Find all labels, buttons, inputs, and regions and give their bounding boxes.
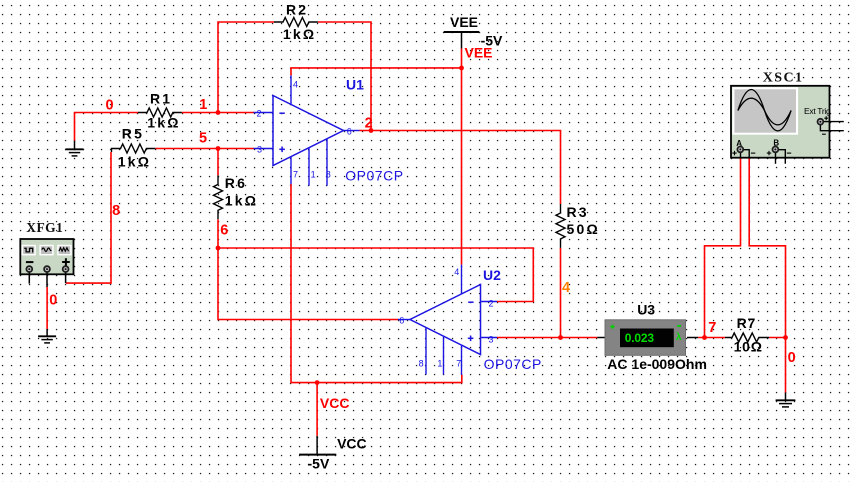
svg-text:5: 5 <box>199 131 207 147</box>
wire: VCC junction down to VCC symbol <box>316 383 318 436</box>
svg-text:1kΩ: 1kΩ <box>283 26 316 42</box>
svg-text:XSC1: XSC1 <box>763 70 804 85</box>
junction node2 R2 right <box>369 128 374 133</box>
ground (below XFG1) <box>38 329 56 343</box>
U3 right lead <box>687 337 698 339</box>
resistor R7 <box>725 333 769 342</box>
svg-text:R6: R6 <box>225 175 247 191</box>
wire: VEE rail down to U2 pin4 <box>461 49 463 265</box>
resistor R3 <box>556 204 565 248</box>
svg-text:VCC: VCC <box>320 395 350 411</box>
wire: R5 right to U1 non-inverting input (node 5) <box>156 148 255 150</box>
svg-text:2: 2 <box>489 299 494 309</box>
resistor R1 <box>138 108 182 117</box>
svg-text:R2: R2 <box>286 1 308 17</box>
wire: U1 output to R3 top <box>360 131 561 205</box>
svg-text:8: 8 <box>112 203 120 219</box>
wire: node 6 down to U2 output <box>218 248 398 320</box>
svg-text:7: 7 <box>708 320 716 336</box>
svg-text:6: 6 <box>347 126 352 136</box>
wire: R7 right to ground (node 0) <box>769 338 786 393</box>
svg-text:R3: R3 <box>567 204 589 220</box>
wire: node 8 from R5 left to XFG1 plus terminal <box>66 152 111 283</box>
svg-text:R7: R7 <box>737 315 757 331</box>
svg-text:B: B <box>773 138 779 147</box>
wire: VEE rail to U1 pin4 <box>291 68 462 76</box>
op-amp U2 (mirrored) <box>398 265 497 375</box>
svg-text:λ: λ <box>676 332 682 343</box>
U1 pin numbers <box>257 79 352 179</box>
wire: U2 non-inverting input to node 4 <box>497 337 561 339</box>
op-amp U1 <box>254 75 360 185</box>
wire: scope channel A plus to node 7 <box>705 158 741 338</box>
svg-text:1kΩ: 1kΩ <box>225 193 258 209</box>
svg-text:VEE: VEE <box>465 45 493 61</box>
svg-text:U2: U2 <box>483 267 501 283</box>
svg-text:3: 3 <box>489 335 494 345</box>
svg-text:7: 7 <box>456 359 461 369</box>
ammeter U3 <box>605 320 686 356</box>
wire: node 1 up to R2 left <box>218 22 274 113</box>
wire: U3 right to R7 left (node 7) <box>698 337 725 339</box>
svg-text:R1: R1 <box>150 91 172 107</box>
wire: XFG1 common to ground <box>46 287 48 329</box>
svg-text:OP07CP: OP07CP <box>484 356 542 372</box>
svg-text:4: 4 <box>293 79 298 89</box>
svg-text:1kΩ: 1kΩ <box>147 115 180 131</box>
svg-text:R5: R5 <box>122 126 144 142</box>
svg-text:U1: U1 <box>346 77 364 93</box>
svg-text:VEE: VEE <box>450 14 478 30</box>
svg-text:XFG1: XFG1 <box>26 220 63 235</box>
wire: R6 bottom to node 6 junction <box>217 219 219 248</box>
wire: node 0 ground to R1 left <box>75 113 139 141</box>
svg-text:-5V: -5V <box>308 456 330 472</box>
function generator XFG1 <box>20 239 73 287</box>
svg-text:6: 6 <box>399 315 404 325</box>
svg-text:1: 1 <box>311 170 316 180</box>
svg-text:4: 4 <box>454 267 459 277</box>
ground (left, net 0) <box>66 141 84 156</box>
resistor R2 <box>274 18 318 27</box>
svg-text:7: 7 <box>293 170 298 180</box>
svg-text:1: 1 <box>437 359 442 369</box>
wire: VCC rail U1 pin7 to U2 pin7 <box>291 184 462 383</box>
svg-text:10Ω: 10Ω <box>734 339 763 355</box>
wire: R2 right down to U1 output (node 2) <box>318 22 371 131</box>
svg-text:4: 4 <box>562 280 570 296</box>
svg-text:50Ω: 50Ω <box>567 221 600 237</box>
svg-text:0: 0 <box>106 98 114 114</box>
wire: node 4 to U3 left <box>561 337 598 339</box>
svg-text:Ext Trig: Ext Trig <box>804 106 831 116</box>
svg-text:A: A <box>736 139 742 148</box>
junction node4 <box>558 335 563 340</box>
svg-text:8: 8 <box>326 170 331 180</box>
power VEE symbol <box>444 14 503 49</box>
junction VCC <box>315 380 320 385</box>
junction node0 scope tap <box>783 335 788 340</box>
U3 left lead <box>597 337 606 339</box>
ground (right, node 0) <box>776 393 796 407</box>
svg-text:3: 3 <box>257 144 262 154</box>
svg-text:OP07CP: OP07CP <box>345 168 403 184</box>
resistor R6 <box>214 175 223 219</box>
junction node7 scope tap <box>702 335 707 340</box>
svg-text:0: 0 <box>788 350 796 366</box>
svg-text:8: 8 <box>419 359 424 369</box>
junction VEE <box>459 66 464 71</box>
svg-text:VCC: VCC <box>337 436 367 452</box>
wire: R3 bottom to node 4 <box>560 248 562 338</box>
oscilloscope XSC1 <box>731 86 844 164</box>
svg-text:0.023: 0.023 <box>625 331 655 345</box>
wire: node 5 junction down to R6 top <box>217 149 219 176</box>
svg-text:1kΩ: 1kΩ <box>118 154 151 170</box>
resistor R5 <box>112 144 156 153</box>
junction node6 <box>216 246 221 251</box>
wire: scope channel A minus to node 0 <box>749 158 785 338</box>
svg-text:U3: U3 <box>637 302 655 318</box>
svg-text:0: 0 <box>49 292 57 308</box>
svg-text:2: 2 <box>257 109 262 119</box>
svg-text:6: 6 <box>220 222 228 238</box>
svg-text:AC 1e-009Ohm: AC 1e-009Ohm <box>607 356 707 372</box>
junction node5 R6 tap <box>216 146 221 151</box>
wire: R1 right to U1 inverting input (node 1) <box>182 112 254 114</box>
power VCC symbol <box>299 436 367 472</box>
U2 pin numbers <box>399 267 493 369</box>
junction node1 R2 tap <box>216 110 221 115</box>
svg-text:1: 1 <box>199 97 207 113</box>
wire: node 6 to U2 inverting input <box>218 248 533 302</box>
